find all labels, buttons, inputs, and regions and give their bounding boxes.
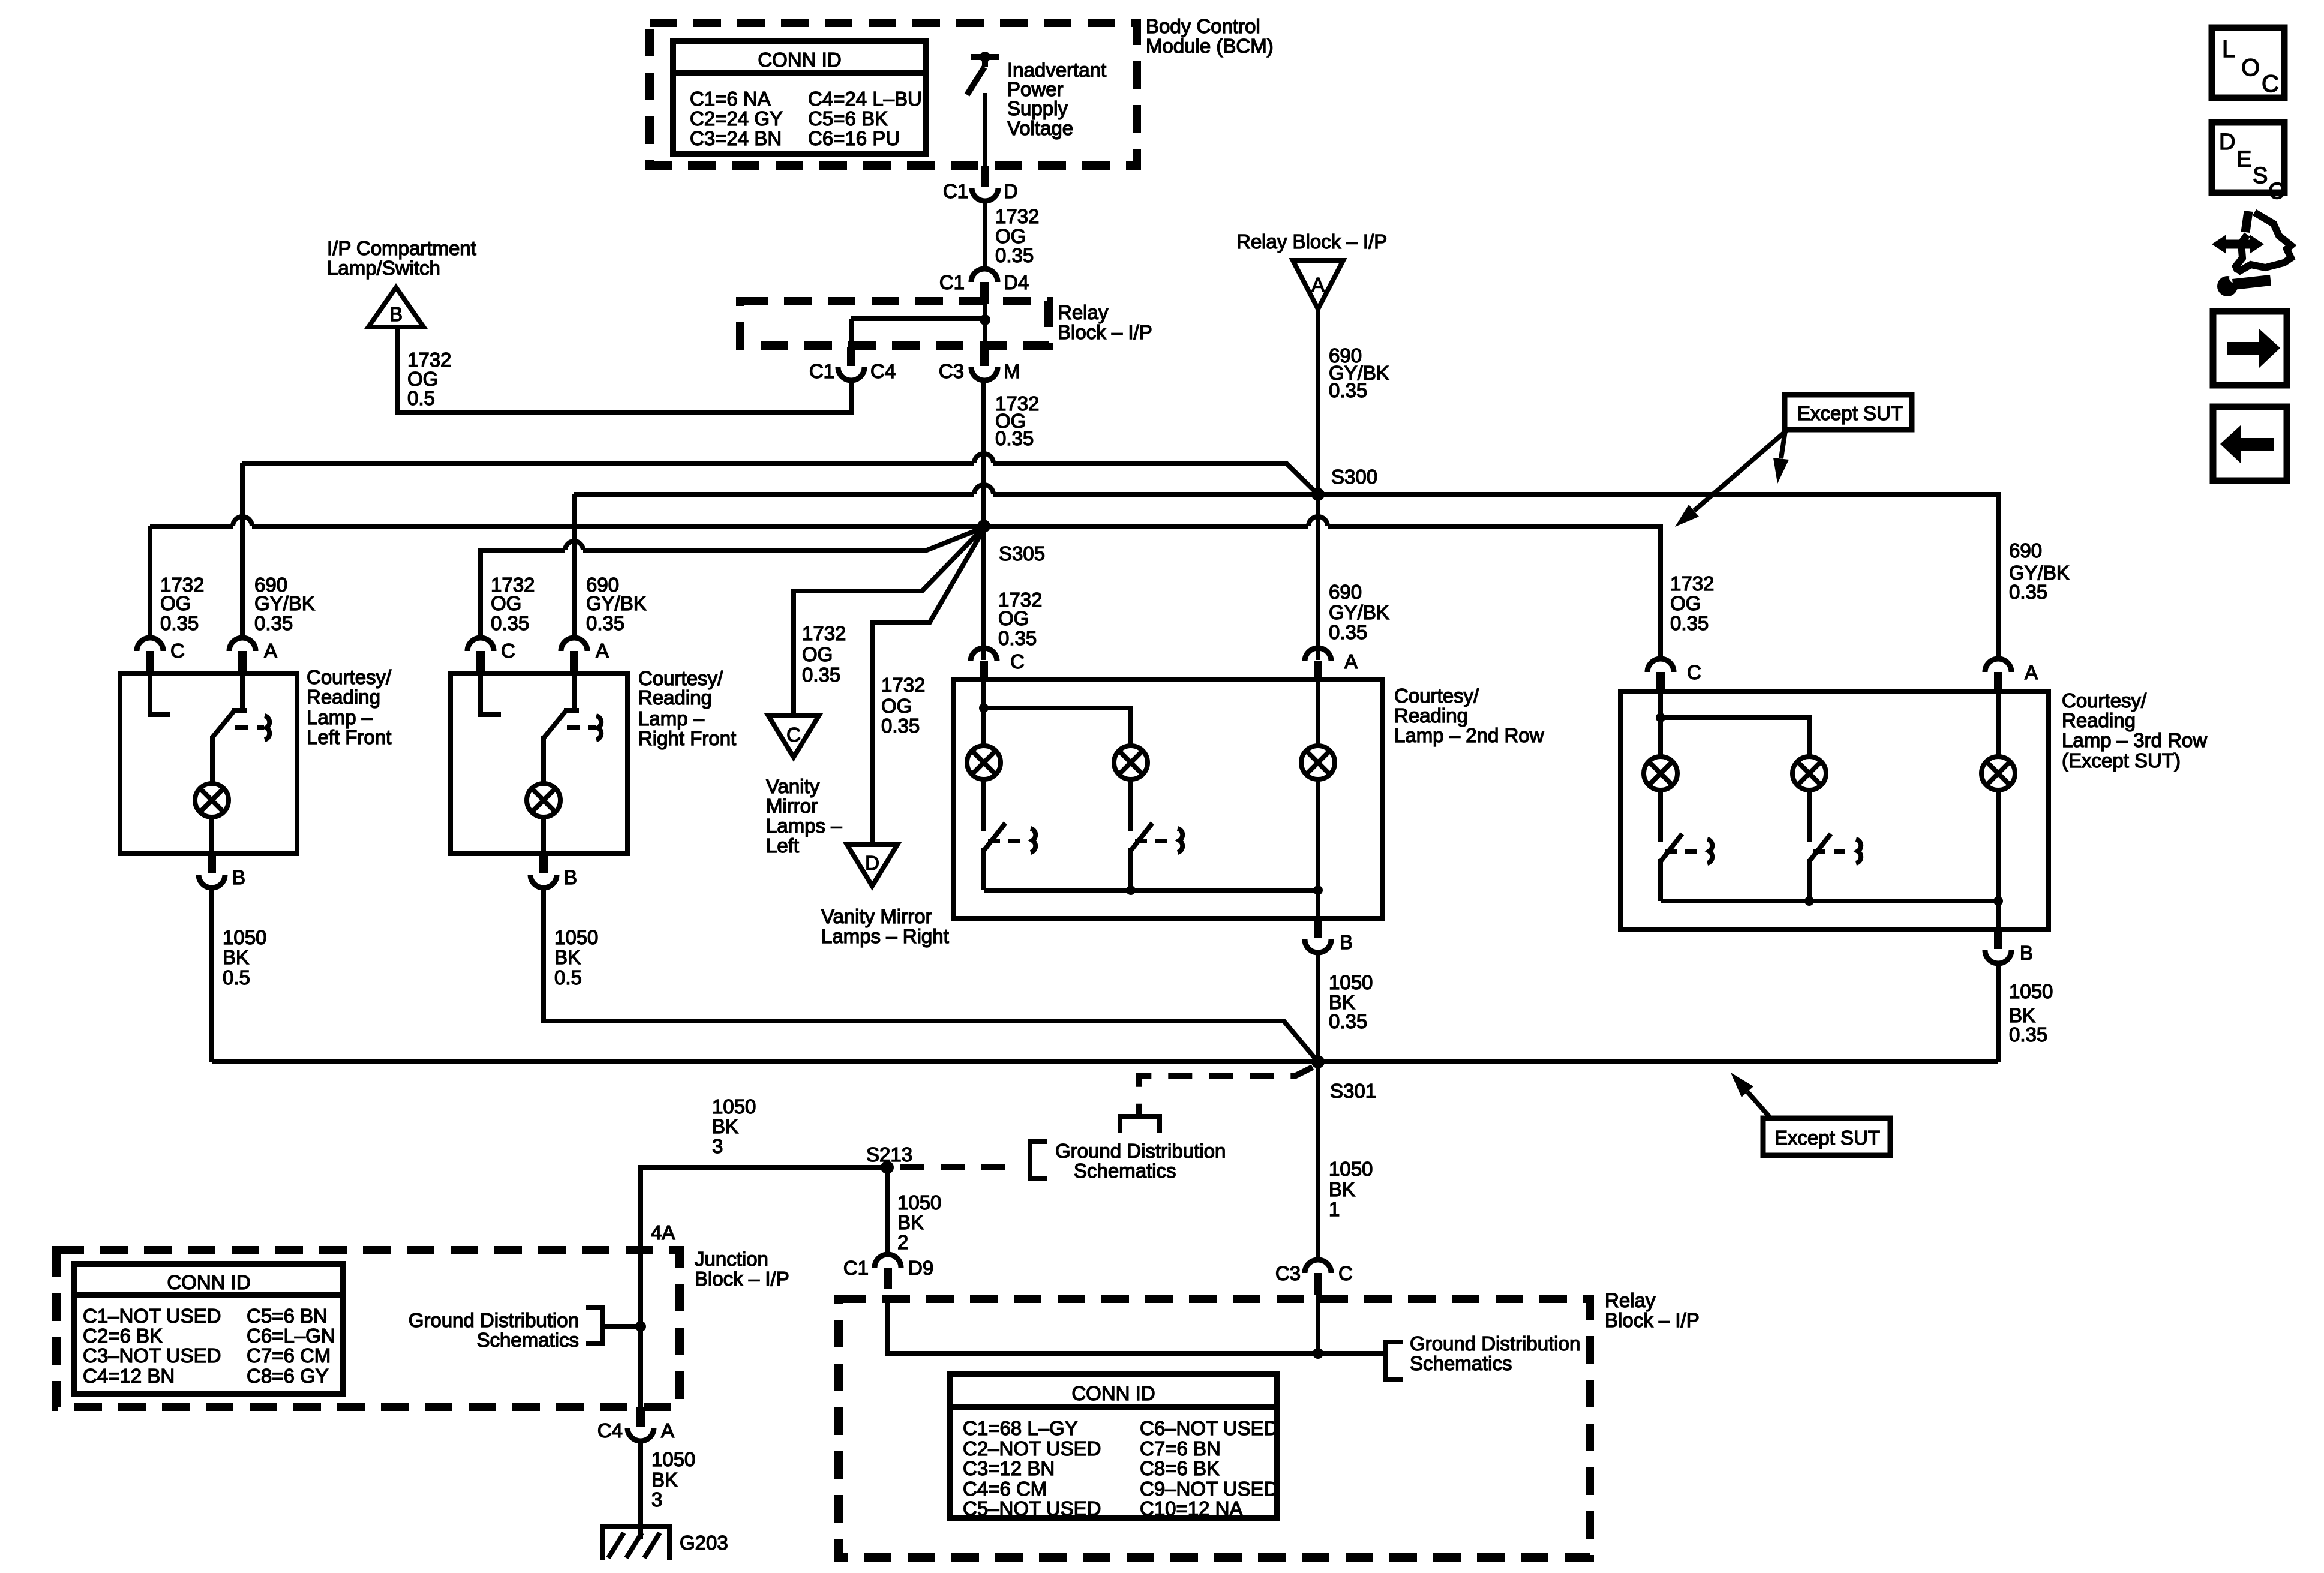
svg-text:B: B (232, 866, 245, 888)
Junction Block - I/P dashed box (56, 1250, 680, 1407)
svg-text:C6=L–GN: C6=L–GN (247, 1325, 335, 1347)
svg-text:CONN ID: CONN ID (1071, 1382, 1155, 1404)
svg-text:GY/BK: GY/BK (254, 592, 315, 614)
2nd row switch 1 (981, 781, 986, 831)
svg-text:B: B (1340, 931, 1353, 953)
svg-text:Courtesy/: Courtesy/ (2062, 689, 2147, 712)
svg-text:GY/BK: GY/BK (1329, 601, 1389, 623)
svg-text:C6–NOT USED: C6–NOT USED (1140, 1417, 1278, 1439)
svg-text:0.35: 0.35 (2009, 1023, 2047, 1046)
svg-text:S300: S300 (1331, 466, 1377, 488)
svg-text:C: C (2262, 71, 2279, 97)
right front lamp switch wire and lever (572, 673, 577, 710)
svg-text:C9–NOT USED: C9–NOT USED (1140, 1478, 1278, 1500)
690 GY/BK bus wire from left front lamp to S300 with hop over C3 M wire (240, 463, 245, 639)
2nd row internal ground bus (984, 888, 1318, 893)
svg-text:0.35: 0.35 (254, 612, 293, 634)
svg-text:C5=6 BK: C5=6 BK (808, 107, 888, 130)
svg-text:Body Control: Body Control (1146, 15, 1260, 37)
svg-text:CONN ID: CONN ID (167, 1271, 250, 1293)
wire 1050 BK 3 from C4 A to ground G203 (638, 1441, 643, 1539)
wire inside relay block from C3 C to junction (1316, 1295, 1320, 1353)
svg-text:1050: 1050 (554, 926, 598, 948)
CONN ID table of bottom relay block (950, 1374, 1277, 1518)
svg-text:Reading: Reading (638, 686, 712, 709)
junction node inside relay block (980, 314, 990, 325)
svg-text:O: O (2241, 55, 2260, 81)
bracket left of ground distribution schematics text (1030, 1142, 1047, 1179)
schematic usage icon (double arrow, pointer outline, wrench) (2212, 211, 2291, 296)
svg-text:C7=6 CM: C7=6 CM (247, 1344, 331, 1367)
wire 1050 BK 0.5 from left front lamp B to S301 bus (209, 888, 214, 1062)
bracket for ground distribution schematics (relay block) (1386, 1342, 1403, 1379)
Relay Block - I/P dashed box (top) (740, 301, 1049, 346)
svg-text:Ground Distribution: Ground Distribution (409, 1309, 579, 1331)
bracket above ground distribution schematics text (1120, 1116, 1160, 1133)
connector B (cup) at left front lamp (199, 875, 225, 888)
svg-text:L: L (2222, 36, 2235, 62)
svg-text:C7=6 BN: C7=6 BN (1140, 1437, 1221, 1460)
svg-text:Mirror: Mirror (766, 795, 818, 817)
svg-text:C1: C1 (939, 271, 965, 293)
svg-text:Reading: Reading (1394, 704, 1468, 727)
wire 1732 OG from right front lamp C to S305 (481, 550, 565, 639)
svg-text:C1–NOT USED: C1–NOT USED (83, 1305, 221, 1327)
connector B (cup) at right front lamp (530, 875, 557, 888)
svg-text:C: C (1687, 661, 1701, 683)
svg-text:Left: Left (766, 834, 799, 857)
svg-text:Ground Distribution: Ground Distribution (1055, 1140, 1226, 1162)
wire from junction to ground distribution bracket (1318, 1351, 1386, 1356)
BCM CONN ID table (673, 41, 926, 154)
Body Control Module (BCM) dashed box (650, 23, 1137, 166)
svg-text:Lamp – 3rd Row: Lamp – 3rd Row (2062, 729, 2207, 751)
svg-text:B: B (2020, 942, 2033, 964)
svg-text:Vanity Mirror: Vanity Mirror (821, 905, 932, 927)
S301 splice node (1311, 1055, 1325, 1068)
svg-text:B: B (564, 866, 577, 888)
svg-text:A: A (1344, 650, 1358, 673)
next schematic arrow icon box (2213, 311, 2287, 385)
arrow from Except SUT to 690 GY/BK bus (1781, 431, 1785, 458)
svg-text:C: C (2268, 179, 2284, 204)
svg-text:C3: C3 (939, 360, 964, 382)
connector B (cup) at 2nd row lamp (1305, 939, 1331, 953)
connector C1 / D (cup) (972, 188, 998, 201)
connector C1 / D9 (dome) (875, 1254, 901, 1268)
pin at BCM connector C1 D (981, 166, 989, 187)
svg-text:C: C (786, 724, 801, 746)
wire 1050 BK 0.5 from right front lamp B to S301 (544, 888, 1318, 1062)
connector A (dome) at right front lamp (561, 638, 587, 651)
3rd row switch 1 (1658, 792, 1663, 842)
svg-text:E: E (2236, 147, 2251, 172)
svg-text:Vanity: Vanity (766, 775, 820, 797)
right front lamp bulb (527, 784, 560, 817)
svg-text:1732: 1732 (802, 622, 846, 644)
connector C3 / M (cup) (971, 367, 998, 380)
1732 OG bus wire from left front lamp through S305 to 3rd row lamp C with hops (148, 526, 152, 639)
svg-text:0.35: 0.35 (998, 627, 1037, 649)
svg-text:Lamps – Right: Lamps – Right (821, 925, 949, 947)
wire inside relay block with junction (983, 304, 987, 346)
3rd row lamp bulb 2 (1792, 757, 1826, 790)
pin at relay block output C1 C4 (847, 347, 855, 366)
connector A (dome) at 3rd row lamp (1985, 659, 2011, 672)
svg-text:690: 690 (1329, 581, 1362, 603)
left front lamp switch linkage curl (265, 716, 269, 740)
3rd row lamp bulb 3 wire from connector A (1996, 692, 2001, 755)
wire 1732 OG from S305 to vanity mirror lamps left (794, 528, 983, 716)
svg-text:BK: BK (554, 946, 581, 968)
svg-text:M: M (1004, 360, 1020, 382)
svg-text:Lamp/Switch: Lamp/Switch (327, 257, 440, 279)
left front lamp box (120, 673, 297, 854)
svg-text:1050: 1050 (1329, 971, 1373, 993)
svg-text:1050: 1050 (712, 1095, 756, 1118)
left front lamp fixed contact wire (150, 673, 170, 715)
pin at left front lamp connector B (208, 854, 216, 873)
arrow from Except SUT to 1732 OG bus corner (1694, 430, 1788, 511)
3rd row feed wire with junction (1658, 691, 1663, 755)
svg-text:Lamps –: Lamps – (766, 815, 842, 837)
2nd row lamp bulb 2 (1114, 746, 1148, 779)
svg-text:S305: S305 (999, 542, 1045, 565)
right front lamp box (451, 673, 627, 854)
svg-text:0.35: 0.35 (995, 427, 1034, 449)
svg-text:C4=6 CM: C4=6 CM (963, 1478, 1047, 1500)
svg-text:0.5: 0.5 (223, 966, 250, 989)
svg-text:0.35: 0.35 (491, 612, 529, 634)
connector C (dome) at 3rd row lamp (1647, 659, 1674, 672)
svg-text:D: D (1004, 180, 1018, 202)
svg-text:CONN ID: CONN ID (758, 49, 841, 71)
svg-text:Schematics: Schematics (476, 1329, 579, 1351)
svg-text:Schematics: Schematics (1410, 1352, 1512, 1374)
svg-text:1: 1 (1329, 1198, 1340, 1220)
svg-text:Courtesy/: Courtesy/ (307, 666, 392, 688)
svg-text:0.35: 0.35 (160, 612, 199, 634)
svg-text:3: 3 (712, 1135, 723, 1157)
svg-text:C1: C1 (843, 1257, 869, 1279)
wire from switch down to BCM connector (983, 93, 987, 166)
connector C (dome) at right front lamp (467, 638, 494, 651)
svg-text:A: A (596, 640, 609, 662)
svg-text:C10=12 NA: C10=12 NA (1140, 1497, 1243, 1520)
svg-text:Ground Distribution: Ground Distribution (1410, 1332, 1580, 1355)
dashed reference from S301 to ground distribution schematics (1139, 1067, 1313, 1114)
pin at 2nd row connector B (1314, 918, 1322, 938)
2nd row lamp bulb 1 (967, 746, 1001, 779)
svg-text:A: A (1311, 274, 1325, 296)
left front lamp switch linkage dash (235, 725, 248, 730)
svg-text:0.5: 0.5 (554, 966, 582, 989)
connector A (dome) at 2nd row lamp (1305, 648, 1331, 661)
right front lamp switch linkage dash (567, 725, 580, 730)
svg-text:3: 3 (651, 1488, 662, 1511)
wire 1732 OG 0.35 from BCM to relay block (983, 200, 987, 269)
3rd row lamp bulb 3 (1981, 757, 2015, 790)
Except SUT callout box (bottom) (1763, 1118, 1890, 1155)
svg-text:BK: BK (651, 1469, 678, 1491)
svg-text:C3: C3 (1275, 1262, 1301, 1284)
svg-text:1050: 1050 (651, 1448, 695, 1470)
svg-text:BK: BK (712, 1115, 738, 1137)
svg-text:C4: C4 (597, 1419, 623, 1442)
left front lamp bulb (195, 784, 229, 817)
svg-text:C2=24 GY: C2=24 GY (690, 107, 783, 130)
svg-text:OG: OG (160, 592, 191, 614)
2nd row lamp box (953, 680, 1382, 918)
wire 1050 BK 0.35 from 3rd row B to S301 bus (1996, 963, 2001, 1062)
svg-text:C2–NOT USED: C2–NOT USED (963, 1437, 1101, 1460)
S213 splice node (881, 1161, 894, 1174)
svg-text:I/P Compartment: I/P Compartment (327, 237, 476, 259)
svg-text:690: 690 (2009, 539, 2042, 562)
wire from left front lamp bulb to connector B (209, 819, 214, 854)
wire 1732 OG from S305 down to 2nd row lamp C (981, 526, 986, 660)
svg-text:OG: OG (881, 695, 912, 717)
svg-text:Right Front: Right Front (638, 727, 736, 749)
svg-text:C5=6 BN: C5=6 BN (247, 1305, 328, 1327)
inadvertant power supply voltage switch inside BCM (971, 54, 999, 60)
svg-text:Relay: Relay (1605, 1289, 1656, 1311)
svg-text:C8=6 GY: C8=6 GY (247, 1365, 329, 1387)
svg-text:D4: D4 (1004, 271, 1029, 293)
connector C4 / A (cup) (627, 1428, 654, 1441)
svg-text:C3=12 BN: C3=12 BN (963, 1457, 1055, 1479)
bracket right of ground distribution schematics text (junction block) (586, 1308, 603, 1344)
junction node on ground wire in junction block (635, 1321, 646, 1332)
connector A (dome) at left front lamp (229, 638, 256, 651)
wire 1732 OG 0.35 from C3 M down to S305 (981, 380, 986, 526)
wire 1732 OG from S305 to vanity mirror lamps right (872, 529, 984, 845)
svg-text:B: B (389, 303, 403, 325)
svg-text:0.35: 0.35 (1329, 621, 1367, 643)
wire from right front lamp bulb to connector B (541, 819, 546, 854)
svg-text:A: A (264, 640, 277, 662)
svg-text:BK: BK (897, 1211, 924, 1233)
svg-text:1050: 1050 (897, 1191, 941, 1214)
svg-text:C4=12 BN: C4=12 BN (83, 1365, 175, 1387)
ground bus through S301 (212, 1059, 1998, 1064)
hop of right front 1732 wire over 690 wire (565, 541, 583, 550)
connector C1 / C4 (cup) (838, 367, 864, 380)
svg-text:Reading: Reading (2062, 709, 2136, 731)
svg-text:Schematics: Schematics (1074, 1160, 1176, 1182)
svg-text:A: A (661, 1419, 674, 1442)
svg-text:0.35: 0.35 (1329, 379, 1367, 401)
I/P Compartment Lamp/Switch triangle B (368, 287, 424, 327)
svg-text:C5–NOT USED: C5–NOT USED (963, 1497, 1101, 1520)
svg-text:0.35: 0.35 (995, 244, 1034, 266)
pin at relay block connector C1 D4 (980, 282, 989, 304)
svg-text:0.35: 0.35 (1329, 1010, 1367, 1032)
svg-text:Block – I/P: Block – I/P (695, 1268, 789, 1290)
Relay Block - I/P triangle A (1293, 260, 1343, 309)
3rd row switch 2 (1807, 792, 1812, 842)
svg-text:Relay: Relay (1058, 301, 1109, 323)
svg-text:Block – I/P: Block – I/P (1605, 1309, 1700, 1331)
svg-text:Lamp – 2nd Row: Lamp – 2nd Row (1394, 724, 1544, 746)
wire 1050 BK 2 from S213 down to C1 D9 (885, 1167, 890, 1256)
dashed reference from S213 to ground distribution schematics (900, 1164, 1022, 1170)
connector B (cup) at 3rd row lamp (1985, 950, 2011, 963)
svg-text:1732: 1732 (1670, 572, 1714, 595)
vanity mirror lamps right triangle D (847, 845, 897, 886)
svg-text:GY/BK: GY/BK (586, 592, 647, 614)
svg-text:Except SUT: Except SUT (1797, 402, 1903, 424)
wire 1732 OG 0.5 from C1 C4 to I/P compartment lamp switch (398, 327, 851, 412)
vanity mirror lamps left triangle C (768, 716, 819, 757)
svg-text:Reading: Reading (307, 686, 380, 708)
2nd row lamp bulb 3 (1301, 746, 1335, 779)
svg-text:S213: S213 (866, 1143, 912, 1166)
Relay Block - I/P dashed box (bottom) (839, 1299, 1590, 1557)
2nd row lamp bulb 3 wire from connector A (1316, 680, 1320, 744)
svg-text:D: D (2219, 130, 2235, 155)
wire 1050 BK 1 from S301 down to relay block C3 C (1316, 1062, 1320, 1261)
690 GY/BK bus wire from right front lamp through S300 to 3rd row lamp A with hop over C3 M wire (572, 494, 577, 639)
svg-text:0.35: 0.35 (1670, 612, 1709, 634)
svg-text:2: 2 (897, 1231, 908, 1253)
svg-text:C4=24 L–BU: C4=24 L–BU (808, 88, 922, 110)
svg-text:C: C (501, 640, 515, 662)
svg-text:Except SUT: Except SUT (1774, 1127, 1880, 1149)
svg-text:1050: 1050 (2009, 980, 2053, 1002)
left front lamp switch wire and lever (240, 673, 245, 710)
previous schematic arrow icon box (2213, 407, 2287, 481)
svg-text:1050: 1050 (223, 926, 266, 948)
wire from bottom relay junction left to C1 D9 (888, 1295, 1318, 1353)
3rd row lamp bulb 1 (1644, 757, 1677, 790)
svg-text:C1=6 NA: C1=6 NA (690, 88, 771, 110)
svg-text:Courtesy/: Courtesy/ (1394, 685, 1479, 707)
2nd row switch 2 (1128, 781, 1133, 831)
svg-text:Block – I/P: Block – I/P (1058, 321, 1152, 343)
svg-text:0.35: 0.35 (802, 664, 840, 686)
svg-text:D9: D9 (908, 1257, 933, 1279)
S305 splice node (977, 520, 990, 533)
svg-text:C: C (1010, 650, 1025, 673)
svg-text:OG: OG (802, 643, 833, 665)
svg-text:C1: C1 (809, 360, 834, 382)
LOC icon box (2212, 28, 2284, 98)
svg-text:Module (BCM): Module (BCM) (1146, 35, 1274, 57)
svg-text:Relay Block – I/P: Relay Block – I/P (1236, 230, 1387, 253)
svg-text:A: A (2025, 661, 2038, 683)
S300 splice node (1311, 488, 1325, 501)
svg-text:Lamp –: Lamp – (638, 707, 705, 730)
svg-text:0.35: 0.35 (586, 612, 624, 634)
svg-text:C: C (1338, 1262, 1353, 1284)
wire branch to C1 C4 (851, 316, 985, 321)
pin at right front lamp connector B (539, 854, 548, 873)
svg-text:1732: 1732 (881, 674, 925, 696)
svg-text:Junction: Junction (695, 1248, 768, 1270)
svg-text:S: S (2253, 163, 2268, 188)
connector C3 / C (dome) (1305, 1260, 1331, 1273)
svg-text:Left Front: Left Front (307, 726, 391, 748)
wire 1050 BK 0.35 from 2nd row B to S301 (1316, 953, 1320, 1062)
svg-text:Supply: Supply (1007, 97, 1068, 119)
svg-text:S301: S301 (1330, 1080, 1376, 1102)
svg-text:OG: OG (998, 607, 1029, 629)
svg-text:C3=24 BN: C3=24 BN (690, 127, 782, 149)
pin at 3rd row connector B (1994, 929, 2002, 949)
svg-text:1732: 1732 (995, 205, 1039, 227)
svg-text:C6=16 PU: C6=16 PU (808, 127, 900, 149)
ground G203 (603, 1527, 669, 1560)
svg-text:BK: BK (1329, 1178, 1355, 1200)
connector C1 / D4 (dome) (971, 269, 998, 282)
svg-text:0.5: 0.5 (407, 387, 435, 409)
pin at junction block connector C4 A (636, 1407, 645, 1427)
svg-text:G203: G203 (680, 1532, 728, 1554)
svg-text:(Except SUT): (Except SUT) (2062, 749, 2181, 772)
svg-text:D: D (865, 852, 879, 874)
wire 690 GY/BK 0.35 from triangle A to S300 (1316, 309, 1320, 494)
svg-text:OG: OG (491, 592, 521, 614)
svg-text:C1: C1 (943, 180, 968, 202)
junction node in bottom relay block (1313, 1348, 1323, 1359)
svg-text:C1=68 L–GY: C1=68 L–GY (963, 1417, 1078, 1439)
svg-text:C3–NOT USED: C3–NOT USED (83, 1344, 221, 1367)
svg-text:C4: C4 (870, 360, 896, 382)
svg-text:Lamp –: Lamp – (307, 706, 373, 728)
svg-text:C2=6 BK: C2=6 BK (83, 1325, 163, 1347)
wire from S300 down to 2nd row lamp A (1316, 494, 1320, 660)
svg-text:0.35: 0.35 (881, 715, 920, 737)
3rd row lamp box (1620, 691, 2049, 929)
junction block CONN ID table (74, 1264, 343, 1394)
svg-text:0.35: 0.35 (2009, 581, 2047, 603)
wire 1050 BK 3 from junction block to S213 (641, 1167, 887, 1407)
wire from junction to ground distribution bracket (junction block) (603, 1324, 641, 1329)
arrow from bottom Except SUT to ground bus (1747, 1092, 1770, 1117)
svg-text:C: C (170, 640, 185, 662)
3rd row internal ground bus (1661, 899, 1998, 903)
right front lamp fixed contact wire (481, 673, 501, 715)
svg-text:1050: 1050 (1329, 1158, 1373, 1180)
svg-text:OG: OG (1670, 592, 1701, 614)
connector C (dome) at 2nd row lamp (971, 648, 997, 661)
svg-text:Voltage: Voltage (1007, 117, 1073, 139)
connector C (dome) at left front lamp (137, 638, 163, 651)
svg-text:C8=6 BK: C8=6 BK (1140, 1457, 1220, 1479)
DESC icon box (2212, 122, 2284, 204)
svg-text:BK: BK (223, 946, 249, 968)
2nd row feed wire with junction (981, 680, 986, 744)
pin at relay block output C3 M (980, 347, 989, 366)
right front lamp switch linkage curl (596, 716, 601, 740)
Except SUT callout box (top) (1785, 395, 1912, 430)
svg-text:4A: 4A (651, 1221, 675, 1244)
